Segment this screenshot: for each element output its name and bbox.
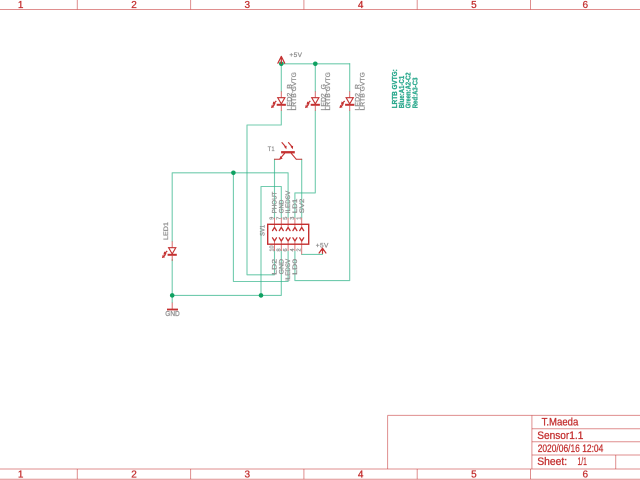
power +5V supply symbol near SV1 pin 2 [319, 248, 326, 254]
svg-text:Sheet:: Sheet: [537, 456, 567, 468]
svg-text:3: 3 [245, 0, 251, 11]
svg-text:+5V: +5V [289, 52, 302, 59]
svg-text:8: 8 [276, 248, 282, 251]
svg-text:T1: T1 [268, 146, 275, 153]
svg-text:1: 1 [18, 0, 24, 11]
phototransistor T1 symbol [275, 142, 302, 159]
connector SV1 pin contacts [273, 218, 304, 255]
LED D-blue LED2_B symbol [271, 91, 286, 111]
svg-text:5: 5 [471, 470, 477, 480]
node GND rail junction [259, 293, 264, 298]
wire LED2_B cathode to SV1 pin 10 LD2 [247, 111, 281, 275]
border frame bottom column numbers 1-6 [18, 470, 589, 480]
svg-text:4: 4 [358, 470, 364, 480]
node GND at LED1 cathode [170, 293, 175, 298]
svg-text:5: 5 [471, 0, 477, 11]
svg-text:4: 4 [358, 0, 364, 11]
border frame bottom ruler line [0, 468, 640, 470]
border frame top column numbers 1-6 [18, 0, 589, 11]
svg-text:1/1: 1/1 [578, 456, 587, 468]
svg-text:2: 2 [297, 248, 303, 251]
wire LED1 cathode to GND node [171, 260, 173, 303]
wire T1 emitter to SV1 pin 9 PHOUT [274, 159, 276, 218]
wire SV1 pin 7 GND to GND rail [261, 187, 281, 296]
power +5V supply symbol top [278, 56, 285, 64]
svg-text:LED1: LED1 [163, 222, 170, 240]
wire LED2_G cathode to SV1 pin 3 LD1 [295, 111, 315, 218]
svg-text:6: 6 [283, 248, 289, 251]
node +5V rail at LED2_G [313, 62, 318, 67]
svg-text:GND: GND [165, 311, 180, 318]
svg-text:5: 5 [283, 217, 289, 220]
svg-text:3: 3 [290, 217, 296, 220]
svg-text:3: 3 [245, 470, 251, 480]
svg-text:+5V: +5V [316, 243, 329, 250]
LED D-green LED2_G symbol [305, 91, 320, 111]
node ILEDSV junction [231, 171, 236, 176]
wire SV1 pin 2 to +5V symbol [302, 253, 323, 254]
border frame top ruler line [0, 9, 640, 11]
wire +5V rail down to LED2_B anode [280, 64, 282, 92]
border frame bottom ruler ticks [77, 469, 530, 479]
wire +5V rail down to LED2_G anode [314, 64, 316, 92]
note LRTB GVTG pinout text [392, 69, 419, 108]
svg-text:LRTB GVTG: LRTB GVTG [360, 72, 367, 110]
svg-text:10: 10 [270, 245, 276, 251]
svg-text:Sensor1.1: Sensor1.1 [537, 430, 583, 442]
svg-text:LRTB GVTG: LRTB GVTG [325, 72, 332, 110]
wire GND rail to SV1 pin 8 GND [172, 251, 281, 296]
svg-text:2020/06/16 12:04: 2020/06/16 12:04 [538, 443, 604, 455]
LED LED1 infrared emitter symbol [162, 241, 177, 261]
svg-text:SV1: SV1 [259, 224, 266, 236]
svg-text:4: 4 [290, 248, 296, 251]
wire +5V rail to LED anodes [281, 63, 349, 65]
svg-text:LD0: LD0 [292, 258, 299, 274]
svg-text:6: 6 [583, 0, 589, 11]
wire T1 collector to SV1 pin 1 SV2 [301, 159, 303, 218]
wire ILEDSV branch to SV1 pin 6 [233, 173, 288, 282]
wire LED2_R cathode to SV1 pin 4 LD0 [295, 111, 350, 281]
svg-text:9: 9 [270, 217, 276, 220]
LED D-red LED2_R symbol [339, 91, 354, 111]
wire LED1 anode node to SV1 pin 5 ILEDSV [172, 173, 288, 242]
wire +5V rail corner down to LED2_R anode [349, 64, 351, 92]
connector SV1 pin header box [268, 224, 309, 244]
svg-text:Red:A3-C3: Red:A3-C3 [412, 77, 419, 108]
svg-text:7: 7 [276, 217, 282, 220]
svg-text:6: 6 [583, 470, 589, 480]
svg-text:2: 2 [131, 0, 137, 11]
border frame top ruler ticks [77, 0, 530, 10]
svg-text:2: 2 [131, 470, 137, 480]
svg-text:T.Maeda: T.Maeda [542, 417, 579, 429]
border frame bottom edge line [0, 478, 640, 480]
title block outline [388, 415, 640, 469]
svg-text:1: 1 [297, 217, 303, 220]
svg-text:SV2: SV2 [299, 198, 306, 213]
svg-text:1: 1 [18, 470, 24, 480]
svg-text:LRTB GVTG: LRTB GVTG [291, 72, 298, 110]
node +5V rail at LED2_B [279, 62, 284, 67]
ground GND symbol [167, 303, 178, 310]
